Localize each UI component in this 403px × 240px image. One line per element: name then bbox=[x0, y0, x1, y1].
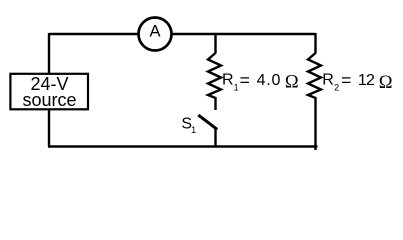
24-V source (battery box) bbox=[10, 74, 88, 110]
svg-text:12: 12 bbox=[358, 72, 375, 89]
svg-text:=: = bbox=[240, 70, 250, 90]
switch S1 top terminal wire bbox=[214, 97, 216, 110]
label R2 value: R2 = 12 ohm bbox=[322, 70, 392, 93]
resistor R2 bbox=[308, 53, 321, 98]
svg-text:Ω: Ω bbox=[285, 73, 299, 93]
wire from source box bottom to bottom wire bbox=[48, 110, 50, 146]
wire from R2 bottom to bottom wire bbox=[314, 97, 316, 150]
label R1 value: R1 = 4.0 ohm bbox=[222, 70, 299, 93]
wire bottom from source to R2 branch bbox=[48, 145, 318, 147]
svg-text:4.0: 4.0 bbox=[257, 72, 282, 89]
svg-text:=: = bbox=[341, 70, 351, 90]
node: R2 branch top corner bbox=[314, 33, 316, 54]
svg-text:A: A bbox=[149, 22, 160, 40]
wire left vertical from top wire down to source box bbox=[48, 33, 50, 73]
wire top from source to R2 branch bbox=[49, 33, 316, 35]
svg-text:Ω: Ω bbox=[379, 73, 393, 93]
resistor R1 bbox=[208, 53, 221, 98]
wire from switch S1 pivot to bottom wire bbox=[214, 128, 216, 148]
node: R1 branch tap on top wire bbox=[214, 34, 216, 54]
switch S1 blade (open) bbox=[200, 116, 217, 129]
label S1 bbox=[181, 116, 196, 135]
svg-text:source: source bbox=[22, 90, 76, 110]
ammeter U1 bbox=[139, 18, 172, 51]
